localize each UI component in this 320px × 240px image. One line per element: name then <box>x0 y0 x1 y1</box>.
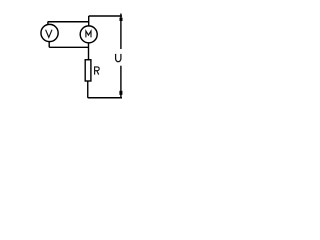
voltmeter V1 label <box>46 30 52 38</box>
wire bottom main <box>88 97 122 99</box>
terminal top <box>120 18 123 21</box>
wire M bottom to resistor <box>88 43 90 60</box>
voltage line U lower segment <box>120 66 122 99</box>
wire parallel-loop top <box>48 21 89 23</box>
resistor R body <box>85 60 91 81</box>
voltmeter V1 circle <box>41 24 58 41</box>
motor M1 circle <box>80 26 97 43</box>
voltage line U upper segment <box>120 14 122 50</box>
wire step vertical at M branch <box>88 16 90 27</box>
voltage label U <box>116 54 121 62</box>
wire parallel-loop bottom <box>49 46 88 48</box>
wire below resistor <box>87 81 89 98</box>
wire V bottom stub <box>48 41 50 47</box>
terminal bottom <box>119 91 122 95</box>
resistor R label <box>95 67 100 75</box>
motor M1 label <box>86 31 91 37</box>
wire V top stub <box>47 22 49 25</box>
wire top main <box>89 15 122 17</box>
